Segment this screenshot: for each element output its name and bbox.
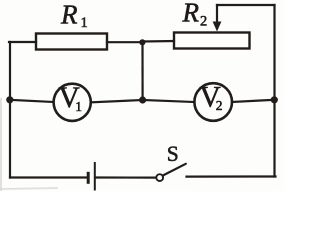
svg-text:R: R	[182, 0, 200, 28]
wire node B to V2	[143, 100, 195, 102]
svg-text:R: R	[60, 0, 78, 30]
node right junction dot	[271, 96, 278, 103]
node left junction dot	[6, 96, 13, 103]
svg-text:1: 1	[75, 99, 82, 114]
wire V2 to right	[232, 100, 275, 102]
node A junction dot	[139, 39, 145, 45]
wire battery to switch	[96, 176, 156, 178]
wire wiper vertical	[216, 5, 218, 24]
wire left vertical	[9, 42, 11, 178]
wire R1 to node A	[107, 41, 143, 43]
svg-text:S: S	[167, 141, 179, 166]
wire node A to node B vertical	[141, 42, 143, 100]
battery long plate (positive)	[94, 162, 96, 191]
wire right vertical	[273, 5, 275, 177]
label R2	[182, 0, 208, 30]
rheostat R2	[174, 33, 250, 49]
scan artifact left edge	[0, 98, 2, 191]
wire node A to R2	[143, 40, 174, 43]
svg-text:2: 2	[200, 14, 207, 30]
svg-text:1: 1	[81, 15, 88, 31]
voltmeter V1	[54, 82, 91, 121]
wire top-left to R1	[9, 41, 36, 43]
wire V1 to node B	[91, 100, 143, 102]
switch lever	[163, 164, 186, 176]
wire wiper top horizontal	[217, 4, 275, 6]
battery short plate (negative)	[87, 172, 90, 184]
resistor R1	[36, 34, 107, 50]
wiper arrow of R2	[213, 22, 222, 32]
node B junction dot	[139, 96, 146, 103]
wire bottom-left to battery	[10, 176, 87, 178]
switch S	[156, 164, 186, 181]
scan artifact bottom edge	[0, 188, 58, 189]
wire V-row left	[10, 100, 54, 102]
svg-text:2: 2	[216, 98, 223, 113]
voltmeter V2	[194, 82, 232, 121]
wire switch to bottom-right	[187, 175, 276, 177]
battery	[88, 162, 95, 191]
label R1	[60, 0, 88, 31]
